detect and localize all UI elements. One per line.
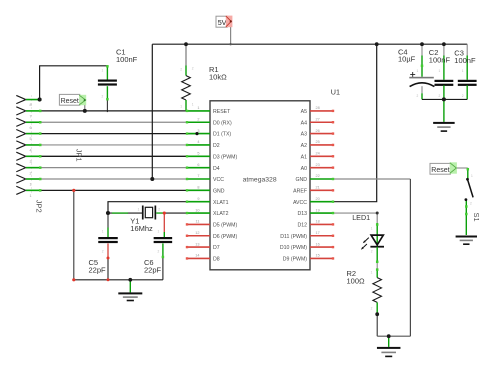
- svg-text:U1: U1: [331, 88, 340, 97]
- svg-text:GND: GND: [295, 177, 307, 183]
- svg-text:1: 1: [138, 207, 140, 211]
- svg-text:1: 1: [371, 271, 373, 275]
- svg-text:1: 1: [417, 69, 419, 73]
- svg-text:100Ω: 100Ω: [347, 276, 366, 285]
- svg-text:22: 22: [316, 174, 320, 178]
- svg-text:25: 25: [316, 140, 320, 144]
- svg-text:24: 24: [316, 152, 320, 156]
- svg-text:16Mhz: 16Mhz: [130, 224, 153, 233]
- svg-text:22pF: 22pF: [89, 265, 107, 274]
- svg-text:D4: D4: [213, 166, 220, 172]
- svg-text:D9 (PWM): D9 (PWM): [283, 257, 307, 263]
- svg-text:D5 (PWM): D5 (PWM): [213, 223, 237, 229]
- svg-text:A4: A4: [301, 120, 307, 126]
- svg-text:20: 20: [316, 197, 320, 201]
- svg-text:AVCC: AVCC: [293, 200, 307, 206]
- svg-text:1: 1: [192, 103, 194, 107]
- svg-text:XLAT1: XLAT1: [213, 200, 229, 206]
- svg-text:A2: A2: [301, 143, 307, 149]
- svg-text:A1: A1: [301, 154, 307, 160]
- svg-text:D10 (PWM): D10 (PWM): [280, 245, 307, 251]
- svg-text:2: 2: [197, 117, 199, 121]
- svg-text:atmega328: atmega328: [243, 176, 277, 183]
- svg-text:2: 2: [158, 250, 160, 254]
- svg-text:2: 2: [470, 202, 472, 206]
- svg-text:2: 2: [102, 250, 104, 254]
- svg-text:GND: GND: [213, 188, 225, 194]
- svg-text:14: 14: [195, 254, 199, 258]
- svg-text:2: 2: [158, 207, 160, 211]
- svg-text:19: 19: [316, 208, 320, 212]
- svg-text:1: 1: [371, 227, 373, 231]
- svg-text:Reset: Reset: [431, 167, 449, 174]
- svg-text:10kΩ: 10kΩ: [209, 73, 227, 82]
- svg-text:RESET: RESET: [213, 109, 231, 115]
- svg-text:5: 5: [30, 137, 32, 141]
- svg-text:JP1: JP1: [74, 149, 83, 162]
- svg-text:D0 (RX): D0 (RX): [213, 120, 232, 126]
- svg-text:11: 11: [196, 220, 200, 224]
- svg-text:D8: D8: [213, 257, 220, 263]
- svg-text:26: 26: [316, 129, 320, 133]
- svg-text:100nF: 100nF: [429, 55, 451, 64]
- svg-text:2: 2: [102, 95, 104, 99]
- svg-text:2: 2: [180, 68, 182, 72]
- svg-text:15: 15: [316, 254, 320, 258]
- svg-text:2: 2: [192, 67, 194, 71]
- svg-text:2: 2: [462, 94, 464, 98]
- svg-text:10: 10: [195, 208, 199, 212]
- svg-text:D11 (PWM): D11 (PWM): [280, 234, 307, 240]
- svg-text:8: 8: [30, 103, 32, 107]
- svg-text:1: 1: [180, 105, 182, 109]
- svg-text:27: 27: [316, 117, 320, 121]
- svg-text:A3: A3: [301, 132, 307, 138]
- svg-text:1: 1: [102, 230, 104, 234]
- svg-text:4: 4: [197, 140, 199, 144]
- svg-text:D2: D2: [213, 143, 220, 149]
- svg-text:23: 23: [316, 163, 320, 167]
- svg-text:21: 21: [316, 186, 320, 190]
- svg-text:A5: A5: [301, 109, 307, 115]
- svg-text:17: 17: [316, 231, 320, 235]
- svg-text:1: 1: [158, 230, 160, 234]
- svg-text:5V: 5V: [218, 18, 227, 27]
- svg-text:1: 1: [462, 69, 464, 73]
- svg-text:4: 4: [30, 149, 32, 153]
- svg-text:22pF: 22pF: [144, 265, 162, 274]
- svg-text:1: 1: [439, 69, 441, 73]
- svg-text:2: 2: [371, 307, 373, 311]
- svg-text:2: 2: [439, 94, 441, 98]
- svg-text:D1 (TX): D1 (TX): [213, 132, 231, 138]
- svg-text:9: 9: [197, 197, 199, 201]
- svg-text:2: 2: [371, 250, 373, 254]
- svg-text:1: 1: [102, 69, 104, 73]
- svg-text:AREF: AREF: [293, 188, 307, 194]
- svg-text:D3 (PWM): D3 (PWM): [213, 154, 237, 160]
- svg-text:Reset: Reset: [61, 98, 79, 105]
- svg-text:5: 5: [197, 152, 199, 156]
- svg-text:7: 7: [30, 115, 32, 119]
- svg-text:2: 2: [417, 94, 419, 98]
- svg-text:10µF: 10µF: [398, 55, 416, 64]
- svg-text:XLAT2: XLAT2: [213, 211, 229, 217]
- svg-text:100nF: 100nF: [116, 55, 138, 64]
- svg-text:1: 1: [197, 106, 199, 110]
- svg-text:12: 12: [195, 231, 199, 235]
- svg-text:S1: S1: [472, 213, 481, 222]
- svg-text:VCC: VCC: [213, 177, 224, 183]
- svg-text:6: 6: [197, 163, 199, 167]
- svg-text:JP2: JP2: [34, 200, 43, 213]
- svg-text:3: 3: [30, 160, 32, 164]
- svg-text:18: 18: [316, 220, 320, 224]
- svg-text:1: 1: [30, 194, 32, 198]
- svg-text:100nF: 100nF: [454, 56, 476, 65]
- svg-text:A0: A0: [301, 166, 307, 172]
- svg-text:D12: D12: [297, 223, 307, 229]
- svg-text:28: 28: [316, 106, 320, 110]
- svg-text:D6 (PWM): D6 (PWM): [213, 234, 237, 240]
- svg-text:D7: D7: [213, 245, 220, 251]
- svg-text:16: 16: [316, 242, 320, 246]
- svg-text:1: 1: [30, 183, 32, 187]
- svg-text:7: 7: [197, 174, 199, 178]
- svg-text:LED1: LED1: [352, 213, 370, 222]
- svg-text:8: 8: [197, 186, 199, 190]
- svg-text:1: 1: [471, 174, 473, 178]
- svg-text:2: 2: [30, 171, 32, 175]
- svg-text:13: 13: [195, 242, 199, 246]
- svg-text:6: 6: [30, 126, 32, 130]
- svg-text:D13: D13: [297, 211, 307, 217]
